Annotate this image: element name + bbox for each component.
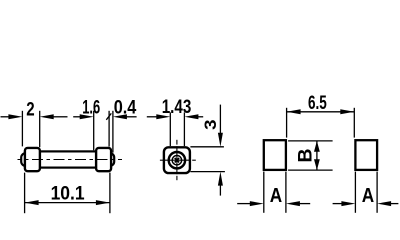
dim A right: left arrowhead [341,201,355,206]
dim 3: top arrow tail [219,105,221,134]
fuse front view: inner bore circle [172,156,181,165]
svg-text:A: A [270,185,282,207]
dim 1.43: right extension line [183,112,185,146]
dim 10.1: dimension line [25,202,110,204]
dim 3: bottom extension line [190,171,225,173]
fuse front view: fuse element center mark [175,158,179,162]
dim 6.5: dimension line [287,111,355,113]
dim B: top extension line [288,140,333,142]
dim 2: right extension line [39,111,41,147]
dim 10.1: left extension line [24,173,26,214]
fuse front view: horizontal center line [160,159,196,161]
fuse front view: tube outer circle [169,152,185,168]
svg-text:1.6: 1.6 [82,97,100,118]
dim 0.4: right arrowhead [113,114,127,119]
pad layout: left solder pad [264,140,286,170]
dim A left: left arrowhead [250,201,264,206]
svg-text:10.1: 10.1 [51,184,85,205]
dim 3: top extension line [190,146,224,148]
dim 2: right arrowhead [40,114,54,119]
dim A right: left extension line [354,172,356,213]
dim A right: left arrow tail [333,203,343,205]
dim 3: top arrowhead [218,133,223,147]
dim B: top arrowhead [314,141,320,152]
dim 3: bottom arrowhead [218,172,223,186]
dim 1.6: left extension line [93,111,95,151]
dim 6.5: left extension line [286,108,288,138]
fuse side view: left end bump [21,153,30,166]
dim 10.1: right extension line [109,173,111,214]
dim 1.6/0.4: shared extension line [108,111,110,147]
svg-text:2: 2 [26,99,34,120]
dim 1.6: left arrowhead [80,114,94,119]
dim 6.5: left arrowhead [287,109,301,114]
dim 2: left arrow tail [1,116,10,118]
dim 1.43: left extension line [169,112,171,146]
dim A right: right extension line [376,172,378,213]
dim 0.4: right extension line [112,111,114,153]
dim 1.6/0.4: oblique tick at shared boundary [106,113,111,119]
dim A right: right arrowhead [377,201,391,206]
svg-text:3: 3 [201,119,220,129]
dim 10.1: right arrowhead [96,200,110,205]
svg-text:B: B [295,149,316,163]
dim 0.4: right arrow tail [126,116,137,118]
dim 6.5: right extension line [353,108,355,138]
fuse side view: right end bump [106,153,115,166]
fuse side view: ceramic tube body [39,151,97,167]
fuse side view: horizontal center line (dash-dot) [18,159,123,161]
dim 1.6: left arrow tail [73,116,81,118]
dim A left: right extension line [285,172,287,213]
dim A left: right arrow tail [299,203,310,205]
dim 2: right arrow tail [53,116,68,118]
dim A left: right arrowhead [286,201,300,206]
svg-text:6.5: 6.5 [308,93,327,114]
dim 2: left extension line [21,111,23,147]
dim B: bottom extension line [288,169,333,171]
svg-text:0.4: 0.4 [114,97,137,118]
dim 2: left arrowhead [8,114,22,119]
fuse front view: vertical center line [176,140,178,180]
fuse side view: right end cap [96,148,111,171]
svg-text:1.43: 1.43 [162,97,192,118]
dim 1.43: right arrow tail [197,116,203,118]
dim 1.43: right arrowhead [184,114,198,119]
dim 6.5: right arrowhead [340,109,354,114]
fuse front view: square cap outline [164,147,190,173]
dim B: dimension line [316,141,318,170]
dim A left: left extension line [263,172,265,213]
dim 10.1: left arrowhead [25,200,39,205]
dim A right: right arrow tail [390,203,398,205]
svg-text:A: A [362,185,374,207]
dim 1.43: left arrowhead [156,114,170,119]
pad layout: right solder pad [355,140,377,170]
dim A left: left arrow tail [237,203,251,205]
fuse side view: left end cap [25,148,40,171]
dim B: bottom arrowhead [314,159,320,170]
dim 1.43: left arrow tail [147,116,158,118]
dim 3: bottom arrow tail [219,185,221,196]
